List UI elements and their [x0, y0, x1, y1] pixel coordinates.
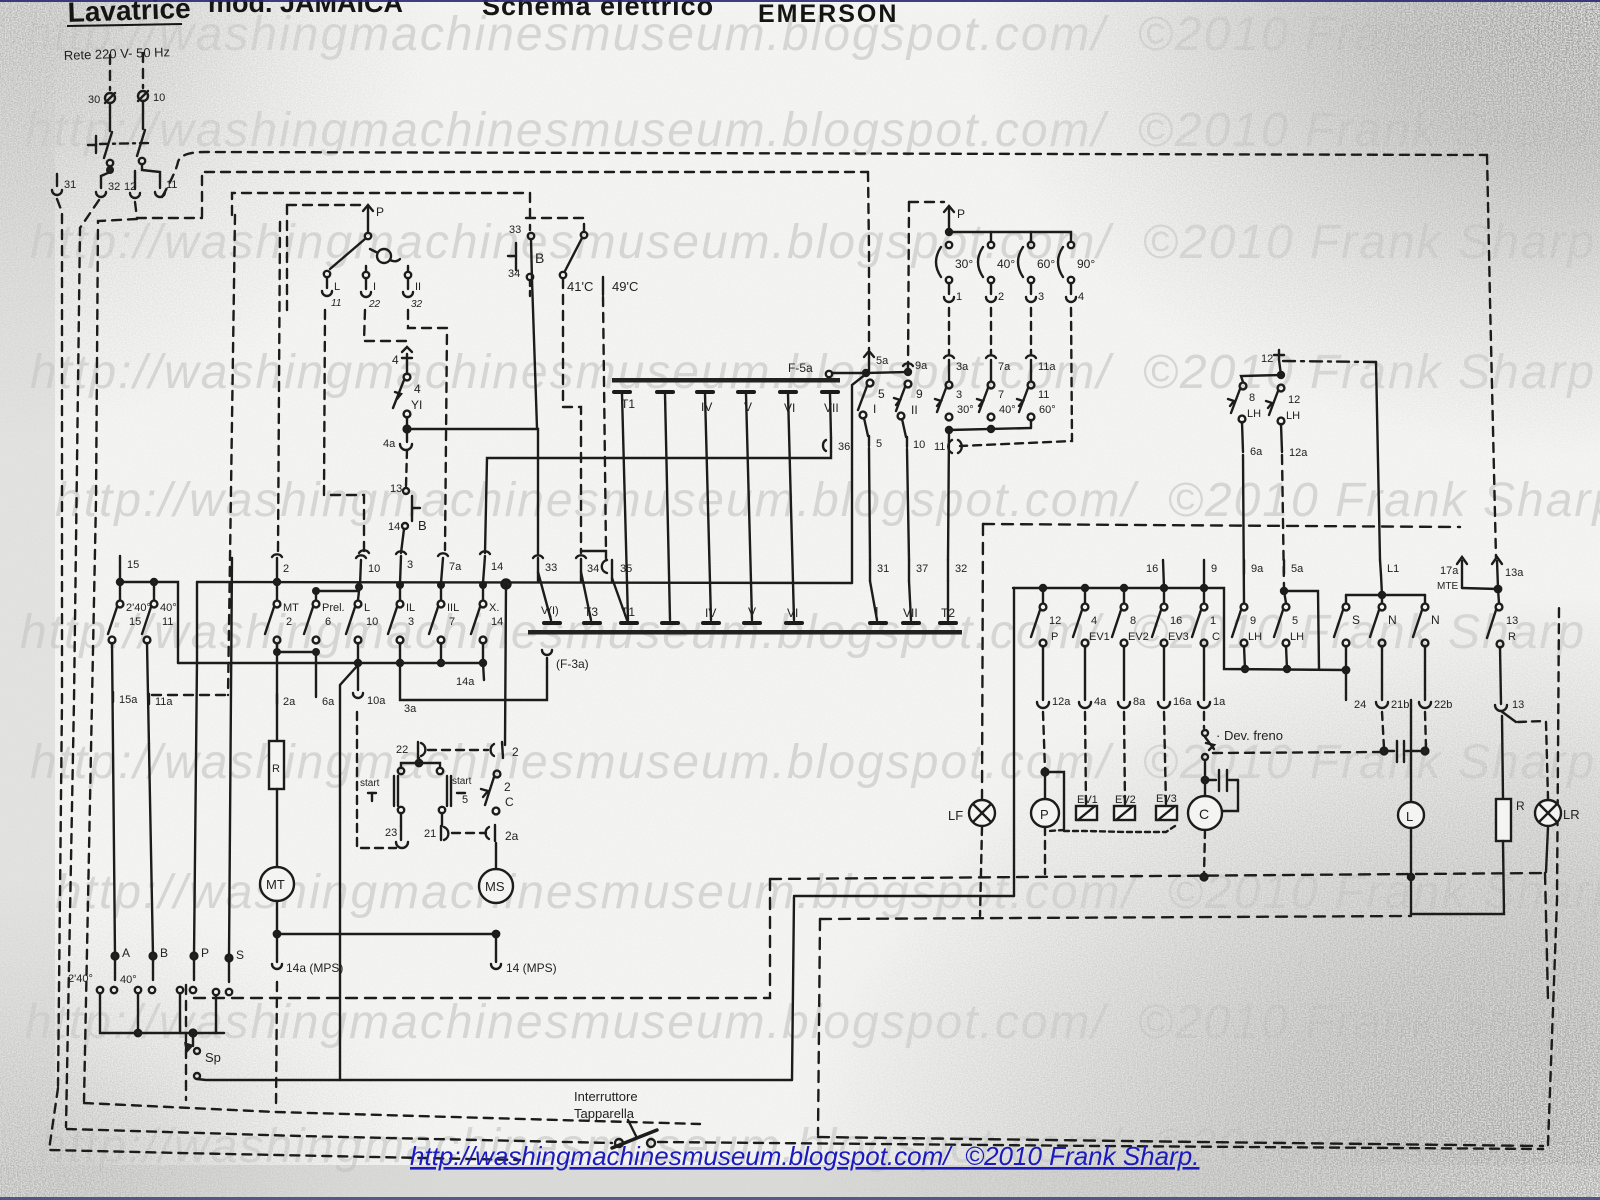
svg-text:31: 31 — [64, 179, 76, 191]
selector cam 90 — [1058, 242, 1095, 283]
wire 13 dashed to LR column — [1518, 721, 1545, 722]
svg-text:12: 12 — [1261, 353, 1273, 365]
contact 9 above — [1204, 560, 1217, 588]
wire timer col VII to hook36 — [830, 394, 831, 438]
node 4a — [404, 417, 411, 432]
selector cam 40 — [978, 232, 1015, 283]
wire bus877 right drop — [1545, 873, 1548, 1000]
contact 5a arrow — [864, 351, 889, 371]
junction P feed — [1042, 769, 1049, 776]
terminal pad V lower — [744, 605, 760, 623]
lamp LR — [1535, 800, 1580, 826]
switch IL/3 — [388, 585, 415, 643]
wire 5a node jog — [1284, 591, 1319, 669]
border V1 bottom run — [49, 1088, 520, 1160]
lamp LF — [948, 800, 995, 826]
wire col S — [229, 558, 232, 958]
svg-text:2: 2 — [512, 745, 519, 759]
svg-text:2: 2 — [504, 780, 511, 794]
wire EV bottoms dashed chain — [1064, 826, 1175, 832]
wire plug S return — [215, 996, 217, 1033]
svg-text:5: 5 — [462, 794, 468, 806]
wire R bottom link — [1411, 841, 1504, 914]
svg-text:7a: 7a — [449, 561, 462, 573]
svg-text:8: 8 — [1130, 615, 1136, 627]
wire IL3 bottom — [399, 643, 401, 663]
border B2 top — [202, 172, 868, 217]
wire L10 bottom to bus663 — [357, 643, 359, 663]
wire 37 to pad VII — [909, 581, 911, 620]
switch X/14 — [471, 585, 503, 643]
svg-text:3: 3 — [956, 389, 962, 401]
terminal 16a EV3 — [1158, 646, 1192, 708]
svg-text:9a: 9a — [915, 360, 928, 372]
svg-text:11: 11 — [166, 179, 177, 191]
svg-text:C: C — [505, 795, 514, 809]
wire P feed dashed — [1043, 712, 1045, 770]
border B3 top — [232, 193, 530, 215]
wire MT-MS link — [277, 933, 496, 935]
wire selector tie down to T2 col — [948, 430, 949, 560]
wire plug B return — [137, 994, 139, 1033]
svg-text:S: S — [236, 948, 244, 962]
switch 3/30 — [935, 382, 974, 421]
svg-text:5: 5 — [878, 387, 885, 401]
plug pair A — [68, 959, 117, 993]
svg-text:IIL: IIL — [447, 602, 459, 614]
contact 14 above bus — [483, 556, 503, 583]
terminal pad VII lower — [903, 606, 919, 623]
svg-text:6a: 6a — [322, 696, 335, 708]
terminal pad IV upper — [697, 392, 713, 414]
svg-text:X.: X. — [489, 602, 499, 614]
wire EV3 feed dashed — [1164, 712, 1166, 805]
svg-text:2: 2 — [998, 291, 1004, 303]
wire LR bottom — [1546, 827, 1548, 872]
svg-text:6a: 6a — [1250, 446, 1263, 458]
border V2 bottom run to shutter switch — [67, 1129, 612, 1143]
box pressure switch left — [286, 205, 288, 312]
border V3 bottom run — [84, 1103, 700, 1124]
svg-text:14: 14 — [491, 616, 503, 628]
svg-text:2: 2 — [283, 563, 289, 575]
terminal L1 — [1380, 560, 1399, 575]
terminal pad T2 lower — [940, 606, 956, 623]
wire bus918 dashed — [820, 916, 1411, 919]
contact 9a — [903, 360, 928, 375]
contact II/32 — [403, 266, 423, 310]
pressure switch pivot and lever — [330, 233, 371, 269]
contact 34 above bus — [576, 555, 599, 581]
wire 22 to 2 dashed — [428, 749, 488, 751]
switch 41C — [560, 232, 594, 294]
switch Prel/6 — [304, 591, 345, 643]
wire plug returns bus — [100, 994, 224, 1033]
wire bus918 bottom run — [818, 1137, 1543, 1146]
border B1 right side to node 13a — [1487, 155, 1496, 558]
svg-text:B: B — [418, 518, 427, 533]
plug pair B — [120, 959, 155, 993]
wire link 6-10 below bus — [316, 590, 359, 592]
junction SNN bus L1 — [1379, 592, 1385, 598]
wire col 5 down — [869, 448, 870, 560]
junction MT bottom — [274, 931, 280, 937]
wire bottom return long — [197, 1079, 792, 1080]
svg-text:15a: 15a — [119, 694, 138, 706]
wire 12 node stub — [1279, 360, 1281, 375]
wire bottom return riser — [792, 897, 794, 1080]
coil EV3 — [1156, 793, 1177, 820]
svg-text:13a: 13a — [1505, 567, 1524, 579]
svg-text:L: L — [1406, 809, 1413, 824]
wire 36 to hook14 — [485, 452, 831, 553]
svg-text:32: 32 — [411, 299, 423, 310]
svg-text:C: C — [1199, 806, 1209, 822]
title underline — [67, 24, 182, 26]
svg-text:23: 23 — [385, 827, 397, 839]
wire 2a to MS — [495, 843, 497, 869]
wire selector 3 dashed down — [1030, 308, 1032, 355]
junction link 6-10 left — [313, 588, 319, 594]
wire 17a to 13a — [1462, 588, 1498, 589]
wire main bus y582 — [197, 582, 852, 583]
junction bus x441 — [438, 582, 444, 588]
wire B3 corner to thermostat B 33 — [529, 193, 531, 230]
pressure switch P arrow — [363, 205, 384, 233]
switch 5/I — [858, 380, 885, 419]
contact 21 — [424, 813, 448, 840]
wire 12a column down dashed — [1282, 455, 1284, 588]
switch 9/II — [894, 381, 923, 420]
svg-text:3a: 3a — [956, 361, 969, 373]
svg-text:2'40°: 2'40° — [68, 973, 93, 985]
contact I/22 — [361, 266, 381, 310]
svg-text:P: P — [957, 207, 965, 221]
svg-text:I: I — [875, 604, 879, 619]
wire 12 dash-dot to right column — [1283, 361, 1376, 362]
contact 37 lower — [909, 560, 928, 581]
switch 12/P — [1031, 588, 1061, 646]
lamp L — [1398, 700, 1424, 828]
junction 5a right node — [1281, 588, 1287, 594]
selector cam 30 — [936, 242, 973, 283]
switch mains double-pole — [88, 130, 150, 166]
junction bus x400 — [397, 582, 403, 588]
svg-text:P: P — [201, 946, 209, 960]
wire 11 dashed to hook10 — [324, 310, 364, 552]
wire selector bottoms tie — [949, 428, 1031, 430]
contact 32 — [96, 176, 120, 197]
plug pair S — [213, 961, 232, 995]
wire P below dashed — [1044, 827, 1046, 874]
wire S bottom to junction — [1345, 646, 1347, 670]
contact 10 hook head — [359, 550, 369, 553]
wire R right column top — [1502, 716, 1503, 798]
svg-text:I: I — [373, 281, 376, 293]
svg-text:1: 1 — [956, 291, 962, 303]
wire 3a link — [400, 663, 547, 700]
switch L/10 — [346, 591, 378, 643]
svg-text:http://washingmachinesmuseum.b: http://washingmachinesmuseum.blogspot.co… — [410, 1141, 1199, 1171]
svg-text:3: 3 — [408, 616, 414, 628]
svg-text:2'40°: 2'40° — [126, 602, 151, 614]
switch tapparella — [612, 1120, 657, 1148]
contact 16 above — [1146, 560, 1164, 588]
svg-text:13: 13 — [1512, 699, 1524, 711]
wire 22 dashed to YI cluster — [364, 310, 407, 346]
contact 32 lower — [948, 560, 967, 581]
terminal pad T1 lower — [621, 605, 637, 623]
wire bus918 left drop — [818, 919, 820, 1135]
svg-text:Tapparella: Tapparella — [574, 1106, 635, 1121]
wire 33 to pad V(I) — [538, 572, 551, 620]
pushbutton start/5 — [437, 768, 472, 813]
capacitor motor — [1381, 741, 1429, 762]
contact 5a right — [1284, 560, 1304, 575]
motor MS — [479, 869, 513, 903]
junction bus669 9LH — [1242, 666, 1248, 672]
wire col A — [112, 643, 115, 956]
svg-text:49'C: 49'C — [612, 279, 638, 294]
svg-text:mod. JAMAICA: mod. JAMAICA — [208, 0, 403, 18]
right cluster box left — [982, 524, 983, 799]
svg-text:12: 12 — [1288, 394, 1300, 406]
svg-text:4a: 4a — [383, 438, 396, 450]
fuse 10 — [138, 91, 165, 104]
terminal 21b — [1376, 646, 1409, 711]
contact 31 — [52, 174, 76, 195]
contact 12 top right — [1261, 350, 1284, 365]
svg-text:MTE: MTE — [1437, 581, 1458, 592]
svg-text:5: 5 — [876, 438, 882, 450]
svg-text:33: 33 — [545, 562, 557, 574]
box start dashed — [357, 712, 396, 848]
wire 41C dashed down — [563, 279, 581, 553]
svg-text:30°: 30° — [955, 257, 973, 271]
resistor R — [269, 741, 284, 789]
svg-text:IL: IL — [406, 602, 415, 614]
junction bus588 EV1 — [1082, 585, 1088, 591]
svg-text:15: 15 — [129, 616, 141, 628]
svg-text:11: 11 — [331, 298, 341, 309]
junction bus588 EV3 — [1161, 585, 1167, 591]
junction P selector — [946, 229, 952, 235]
wire 22b dashed to capacitor — [1425, 712, 1426, 748]
border B1 top — [162, 152, 1487, 197]
wire return horizontal y896 — [794, 895, 1014, 897]
coil EV1 — [1076, 794, 1098, 820]
wire 5LH bottom to bus669 — [1286, 646, 1287, 669]
svg-text:90°: 90° — [1077, 257, 1095, 271]
resistor R right — [1496, 799, 1525, 841]
svg-text:EV3: EV3 — [1156, 793, 1177, 805]
wire left dashed riser x186 — [185, 985, 187, 1100]
contact 11 — [155, 176, 177, 197]
contact 7a selector — [986, 355, 1011, 381]
junction bus663 x400 — [397, 660, 403, 666]
svg-text:2a: 2a — [505, 829, 519, 843]
svg-text:EV2: EV2 — [1115, 794, 1136, 806]
svg-text:7a: 7a — [998, 361, 1011, 373]
wire timer col VI — [788, 394, 794, 620]
wire bus lower horizontal — [178, 662, 484, 664]
svg-text:F-5a: F-5a — [788, 361, 813, 375]
terminal pad I lower — [662, 606, 678, 623]
junction 12 node — [1278, 372, 1284, 378]
wire fuse10 to switch — [142, 101, 144, 129]
svg-text:10: 10 — [153, 92, 165, 104]
svg-text:LH: LH — [1248, 631, 1262, 643]
wire 9LH bottom to bus669 — [1244, 646, 1245, 669]
junction MT-Prel link right — [313, 649, 319, 655]
svg-text:21b: 21b — [1391, 699, 1409, 711]
svg-text:24: 24 — [1354, 699, 1366, 711]
wire 21b dashed to capacitor — [1382, 712, 1384, 748]
terminal strip lower bar — [528, 630, 962, 635]
wire MT col upper — [276, 644, 278, 741]
svg-text:16: 16 — [1146, 563, 1158, 575]
svg-text:S: S — [1352, 613, 1360, 627]
terminal 1a C — [1198, 646, 1226, 708]
fuse 30 — [88, 93, 115, 106]
wire L1 to SNN bus — [1381, 575, 1382, 595]
svg-text:40°: 40° — [160, 602, 177, 614]
svg-text:V: V — [748, 605, 756, 619]
wire contact12 to border B2 — [135, 202, 202, 218]
svg-text:40°: 40° — [997, 257, 1015, 271]
svg-text:16: 16 — [1170, 615, 1182, 627]
svg-text:8: 8 — [1249, 392, 1255, 404]
switch 2'40/15 — [108, 585, 151, 643]
wire to contact 12 — [134, 171, 136, 177]
junction C on bus877 — [1201, 874, 1208, 881]
terminal 24 — [1346, 670, 1366, 711]
svg-text:2: 2 — [286, 616, 292, 628]
contact 12 — [124, 177, 140, 198]
wire EV1 feed dashed — [1085, 712, 1086, 805]
terminal pad I upper — [657, 392, 673, 413]
thermostat B upper 33/34 — [508, 224, 544, 280]
svg-text:P: P — [1040, 807, 1049, 822]
title row — [67, 0, 898, 28]
svg-text:11: 11 — [162, 616, 173, 628]
junction start tie — [416, 760, 422, 766]
svg-text:MT: MT — [266, 877, 285, 892]
scanner shadow overlays — [0, 0, 440, 440]
svg-text:EV1: EV1 — [1089, 631, 1110, 643]
wire col P — [194, 582, 197, 956]
switch 4/YI — [393, 362, 422, 417]
contact 17a MTE arrow — [1437, 557, 1467, 592]
contact 22 — [396, 742, 425, 758]
terminal pad T3 lower — [584, 605, 600, 623]
wire bus15 — [120, 582, 178, 663]
wire col B — [147, 643, 153, 956]
svg-text:Schema elettrico: Schema elettrico — [482, 0, 714, 21]
terminal 10 lower — [902, 419, 925, 451]
junction bus x506 fat — [502, 580, 511, 589]
wire timer col V — [746, 394, 752, 620]
border V2 from contact 32 — [66, 200, 99, 1127]
wire LR top dashed — [1546, 722, 1548, 799]
svg-text:34: 34 — [508, 268, 520, 280]
svg-text:II: II — [911, 403, 918, 417]
switch 7/40 — [977, 382, 1016, 421]
svg-text:3a: 3a — [404, 703, 417, 715]
svg-text:22: 22 — [368, 299, 381, 310]
terminal 4a EV1 — [1079, 646, 1107, 708]
terminal 12a P — [1037, 646, 1071, 708]
svg-text:30: 30 — [88, 94, 100, 106]
svg-text:13: 13 — [390, 483, 402, 495]
svg-text:start: start — [452, 776, 472, 787]
terminal 4 selector — [1066, 283, 1084, 303]
svg-text:10: 10 — [368, 563, 380, 575]
switch IIL/7 — [429, 585, 459, 643]
junction bus669 S — [1343, 667, 1349, 673]
svg-text:I: I — [873, 402, 876, 416]
wire 9a node horizontal — [866, 372, 908, 373]
wire bus877 dashed — [770, 873, 1545, 879]
svg-text:41'C: 41'C — [567, 279, 593, 294]
node 15 — [117, 556, 139, 585]
svg-text:N: N — [1388, 613, 1397, 627]
junction plug bus 1 — [135, 1030, 141, 1036]
junction 13a — [1495, 586, 1501, 592]
switch 13/R — [1487, 589, 1518, 647]
svg-text:4: 4 — [392, 353, 399, 367]
svg-text:LH: LH — [1286, 410, 1300, 422]
border bottom-right riser — [1548, 608, 1559, 1145]
wire 32 dashed to hook 7a — [408, 310, 447, 550]
wire SNN bus — [1346, 594, 1425, 596]
svg-text:LH: LH — [1290, 631, 1304, 643]
wire 22 down — [418, 758, 420, 763]
terminal 15a — [113, 692, 138, 706]
wire return riser x1014 — [1013, 588, 1015, 896]
svg-text:2a: 2a — [283, 696, 296, 708]
svg-text:40°: 40° — [120, 974, 137, 986]
pushbutton start/T — [360, 768, 404, 813]
svg-text:21: 21 — [424, 828, 436, 840]
wire to contact 11 — [142, 164, 160, 176]
svg-text:15: 15 — [127, 559, 139, 571]
junction 5a node — [863, 370, 869, 376]
svg-text:5a: 5a — [1291, 563, 1304, 575]
terminal pad T1 upper — [614, 392, 635, 411]
svg-text:EV3: EV3 — [1168, 631, 1189, 643]
terminal 5 — [864, 418, 882, 450]
junction selector tie mid — [988, 426, 994, 432]
contact L/11 — [322, 271, 341, 309]
terminal 14a MPS — [272, 934, 343, 975]
timer motor contact 4 head — [392, 347, 412, 367]
pressure switch coil — [370, 249, 400, 263]
svg-text:1: 1 — [1210, 615, 1216, 627]
svg-text:11a: 11a — [1038, 361, 1056, 373]
switch Dev freno — [1202, 712, 1283, 760]
contact 2 above bus — [272, 554, 289, 580]
border V2 bottom run after shutter switch — [658, 1142, 1543, 1149]
svg-text:P: P — [1051, 631, 1058, 643]
svg-text:9: 9 — [916, 387, 923, 401]
svg-text:A: A — [122, 946, 130, 960]
selector box left side — [908, 202, 909, 370]
svg-text:II: II — [415, 281, 421, 293]
svg-text:3: 3 — [407, 559, 413, 571]
box pressure switch top — [287, 204, 361, 206]
contact 10 above bus — [356, 555, 380, 585]
